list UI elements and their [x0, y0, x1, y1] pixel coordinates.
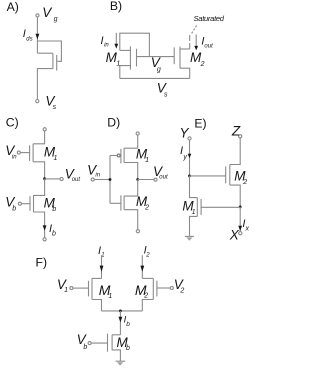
svg-text:1: 1 — [54, 155, 58, 162]
label X — [229, 228, 240, 243]
label Vout (C) — [65, 166, 81, 183]
svg-text:A): A) — [7, 0, 19, 14]
wire gate M1 (D) — [110, 155, 117, 157]
transistor M2 (E) gate bar — [225, 166, 227, 183]
label Vb (F) — [77, 332, 88, 351]
svg-text:C): C) — [6, 116, 19, 130]
wire Vin (D) — [94, 179, 110, 181]
svg-text:1: 1 — [64, 287, 68, 294]
terminal X — [239, 232, 242, 235]
svg-text:2: 2 — [242, 179, 247, 186]
wire drain M1 (B) — [120, 49, 131, 51]
svg-text:out: out — [159, 175, 168, 181]
transistor M1 (C) gate bar — [29, 145, 31, 161]
transistor Mb (F) gate bar — [107, 334, 109, 352]
transistor M2 (E) channel — [229, 165, 231, 186]
node Vout dot (C) — [43, 177, 46, 180]
transistor M2 (D) channel — [123, 196, 125, 210]
transistor M1 (F) gate bar — [88, 281, 90, 297]
wire source M1 (E) — [190, 216, 198, 236]
wire drain M2 (B) — [180, 48, 190, 50]
node input dot (D) — [109, 178, 112, 181]
label Vg (B) — [151, 55, 162, 73]
terminal Z — [239, 135, 242, 138]
panel label D) — [107, 116, 120, 130]
label M1 (F) — [99, 282, 113, 300]
wire diode tie M1 (B) — [120, 33, 150, 56]
node dot2 (E) — [239, 206, 242, 209]
terminal Vin (D) — [91, 178, 94, 181]
wire gate Mb (C) — [21, 203, 30, 205]
transistor M1 (D) channel — [123, 148, 125, 163]
dashed pointer arrow — [192, 26, 197, 34]
label M1 (D) — [136, 146, 149, 163]
node output dot (D) — [136, 178, 139, 181]
terminal top rail (D) — [136, 132, 139, 135]
svg-text:b: b — [126, 321, 130, 328]
label M2 (D) — [136, 194, 149, 212]
wire source M1 (B) — [120, 66, 131, 79]
label Ib (C) — [49, 223, 56, 238]
wire drain M1 (D) — [124, 163, 138, 180]
label Vs (B) — [157, 80, 168, 98]
wire drain M1 (E) — [190, 176, 198, 198]
wire to Vout (D) — [138, 179, 154, 181]
wire source M2 (B) — [180, 68, 190, 78]
terminal Vs (bottom of A) — [36, 100, 39, 103]
svg-text:ds: ds — [26, 37, 32, 43]
current arrow Iin — [115, 33, 117, 44]
label M1 (E) — [182, 199, 195, 217]
svg-text:2: 2 — [143, 293, 148, 300]
wire drain M1 (C) — [33, 131, 45, 144]
transistor M1 (C) channel — [32, 144, 34, 162]
wire gate loop M (A) — [37, 41, 61, 61]
panel label F) — [36, 256, 48, 270]
terminal Vout (D) — [154, 178, 157, 181]
terminal Vout (C) — [60, 177, 63, 180]
ground (E) — [185, 235, 194, 237]
svg-text:1: 1 — [116, 61, 120, 68]
label Ids — [23, 28, 33, 43]
wire drain horizontal M2 (F) — [142, 277, 153, 279]
svg-text:2: 2 — [144, 205, 149, 212]
transistor Mb (C) gate bar — [29, 196, 31, 211]
label M2 (F) — [135, 282, 148, 300]
wire source M1 (D) — [124, 135, 138, 148]
svg-text:b: b — [52, 231, 56, 238]
wire drain M2 (E) to Z — [230, 138, 240, 165]
label M2 (B) — [190, 50, 205, 68]
label Z — [231, 123, 241, 138]
wire drain from Vg — [36, 17, 38, 53]
wire gate riser (D) — [109, 156, 111, 204]
terminal V1 (F) — [70, 287, 73, 290]
label M2 (E) — [234, 169, 247, 186]
svg-text:2: 2 — [179, 287, 184, 294]
panel label A) — [7, 0, 19, 14]
wire drain horizontal M1 (F) — [92, 277, 102, 279]
wire drain Mb (C) — [34, 179, 45, 196]
wire source (A) — [37, 69, 53, 100]
svg-text:Saturated: Saturated — [194, 14, 225, 23]
wire from Y — [189, 140, 191, 176]
svg-text:out: out — [204, 44, 213, 50]
wire gate M2 (F) — [157, 287, 170, 289]
svg-text:Z: Z — [231, 123, 241, 138]
wire source M1 (C) — [33, 162, 45, 179]
wire Vg rail gate-to-gate (B) — [137, 56, 175, 58]
terminal Vb (C) — [18, 202, 21, 205]
svg-text:I: I — [101, 35, 104, 47]
wire Ix (E) — [239, 207, 241, 231]
panel label E) — [194, 117, 206, 131]
current arrow Ib (C) — [43, 225, 47, 230]
transistor M2 (F) gate bar — [156, 281, 158, 297]
svg-text:D): D) — [107, 116, 120, 130]
svg-text:2: 2 — [145, 253, 150, 259]
transistor M1 (D) gate bar — [120, 149, 122, 163]
wire Ib (F) — [119, 311, 121, 335]
label I1 — [98, 245, 105, 259]
current arrow Ids — [36, 34, 40, 39]
label I2 — [144, 244, 151, 258]
label Ix — [242, 218, 249, 232]
wire drain M1 (F) with current arrow I1 — [101, 255, 103, 278]
svg-text:1: 1 — [192, 209, 196, 216]
transistor Mb (C) channel — [33, 195, 35, 212]
panel label B) — [110, 0, 122, 13]
transistor M (A) gate bar — [56, 55, 58, 71]
svg-text:in: in — [95, 173, 100, 179]
label M1 (C) — [44, 145, 58, 163]
terminal top rail (C) — [43, 128, 46, 131]
svg-text:y: y — [182, 154, 187, 161]
wire source M2 (D) — [124, 210, 138, 230]
wire source M1 (F) — [92, 300, 102, 311]
svg-text:b: b — [52, 206, 56, 213]
svg-text:b: b — [126, 345, 130, 352]
current arrow Iy — [188, 154, 192, 158]
terminal bottom (D) — [136, 230, 139, 233]
label Iout — [201, 35, 213, 49]
transistor M1 (E) channel — [196, 198, 198, 217]
wire source M2 (E) — [230, 185, 240, 207]
label Saturated — [194, 14, 225, 23]
wire gate M1 (F) — [73, 287, 89, 289]
terminal Y — [188, 137, 191, 140]
wire drain M2 (F) with current arrow I2 — [141, 255, 143, 278]
label Iy — [180, 145, 187, 161]
transistor M2 (B) channel — [179, 47, 181, 69]
label Vin (C) — [5, 143, 17, 161]
wire tail bus (F) — [102, 310, 143, 312]
svg-text:E): E) — [194, 117, 206, 131]
svg-text:x: x — [245, 225, 250, 232]
svg-text:out: out — [72, 177, 81, 183]
label Vin (D) — [87, 163, 101, 179]
svg-text:1: 1 — [108, 293, 112, 300]
svg-text:b: b — [12, 206, 16, 213]
label Vg — [42, 5, 57, 23]
svg-text:g: g — [157, 67, 161, 74]
label V1 (F) — [57, 277, 68, 294]
wire gate Mb (F) — [91, 342, 107, 344]
label Mb (F) — [117, 335, 131, 352]
svg-text:X: X — [229, 228, 240, 243]
wire gate rail M2 (E) — [190, 175, 226, 177]
label Mb (C) — [44, 196, 57, 213]
svg-text:1: 1 — [145, 157, 149, 164]
terminal bottom (C) — [43, 238, 46, 241]
svg-text:b: b — [83, 344, 87, 351]
current arrow Ib (F) — [119, 317, 123, 323]
current arrow Iout — [195, 34, 197, 46]
wire source M2 (F) — [142, 300, 153, 311]
transistor M2 (D) gate bar — [120, 195, 122, 210]
terminal Vg (top of A) — [36, 14, 39, 17]
wire gate M1 (C) — [20, 152, 29, 154]
wire dashed saturated drain (B) — [189, 34, 191, 49]
wire Vs bus (B) — [120, 77, 190, 79]
label Ib (F) — [124, 315, 131, 329]
node tail dot (F) — [119, 310, 122, 313]
transistor M2 (F) channel — [152, 278, 154, 299]
label Vb (C) — [5, 195, 16, 213]
wire drain M2 (D) — [124, 180, 138, 197]
transistor Mb (F) channel — [111, 335, 113, 350]
label V2 (F) — [174, 277, 185, 294]
wire gate M2 (D) — [110, 202, 121, 204]
svg-text:in: in — [104, 43, 109, 49]
transistor M1 (E) gate bar — [200, 199, 202, 215]
wire source Mb (F) — [112, 350, 120, 361]
terminal V2 (F) — [170, 287, 173, 290]
label Vout (D) — [153, 164, 168, 180]
ground (F) — [116, 360, 126, 362]
label Y — [180, 125, 190, 140]
transistor M1 (F) channel — [91, 278, 93, 299]
svg-text:in: in — [12, 155, 17, 161]
wire gate M1 (E) — [201, 206, 240, 208]
transistor M1 (B) channel — [129, 46, 131, 69]
wire source Mb (C) — [34, 212, 45, 238]
transistor M (A) channel — [52, 53, 54, 68]
terminal Vin (C) — [17, 151, 20, 154]
svg-text:s: s — [53, 104, 57, 111]
pmos bubble M1 (D) — [117, 154, 120, 157]
label M1 (B) — [106, 50, 121, 68]
wire drain horizontal (A) — [37, 52, 53, 54]
label Iin — [101, 35, 110, 49]
svg-text:F): F) — [36, 256, 48, 270]
label Vs — [45, 93, 56, 111]
svg-text:2: 2 — [200, 61, 205, 68]
svg-text:B): B) — [110, 0, 122, 13]
wire drain horizontal Mb (F) — [112, 334, 120, 336]
transistor M2 (B) gate bar — [173, 47, 175, 64]
svg-text:g: g — [54, 16, 58, 23]
current arrow Ix — [238, 226, 242, 231]
transistor M1 (B) gate bar — [136, 49, 138, 67]
panel label C) — [6, 116, 19, 130]
wire to Vout terminal (C) — [45, 178, 61, 180]
terminal Vb (F) — [88, 342, 91, 345]
svg-text:s: s — [164, 92, 168, 99]
node dot1 (E) — [188, 175, 191, 178]
